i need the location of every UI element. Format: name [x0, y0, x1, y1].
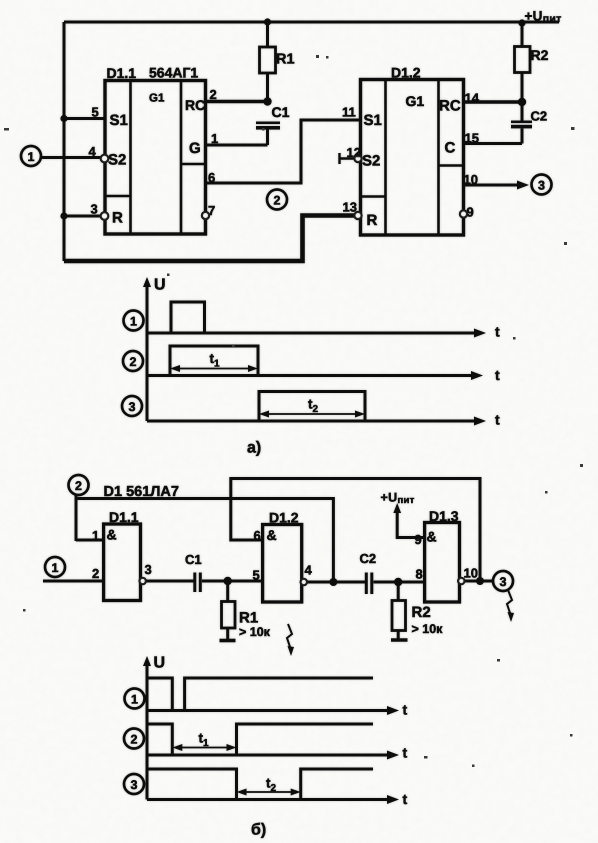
wire pin3 R [64, 215, 101, 218]
node +Uпит label [525, 9, 562, 26]
wire bottom run to R of D1.2 [64, 216, 354, 262]
R1 value label [276, 52, 295, 68]
wire pin3 to C1 [146, 580, 194, 583]
node label 3 row [122, 396, 142, 416]
node input terminal 1 [21, 146, 41, 166]
wire pin10 to terminal 3 [465, 580, 494, 583]
capacitor C1 [256, 122, 280, 146]
R1 value label lower [239, 610, 271, 640]
node junction feedback on output [476, 577, 484, 585]
axis t row1 diagram a [147, 332, 478, 335]
node junction S1 [60, 115, 67, 122]
node junction net2 on output [329, 578, 337, 586]
pin 9 circle on D1.2 [460, 210, 467, 217]
C1 label [272, 104, 290, 120]
dimension t1 diagram b [176, 747, 233, 749]
power +Uпит lower [381, 491, 415, 507]
dimension t2 diagram b [241, 791, 298, 793]
node junction R2 [394, 578, 402, 586]
node input terminal 1 lower [45, 557, 65, 577]
pin 3 inverting circle [140, 578, 146, 584]
wire pin10 output arrow [464, 184, 523, 187]
pin numbers gate D1.2 [253, 528, 313, 583]
wire top +U rail [64, 21, 559, 24]
resistor R2 [515, 23, 531, 102]
capacitor C2 [511, 102, 532, 144]
gate D1.3 labels [427, 508, 459, 545]
node label 2 row [123, 351, 143, 371]
axis t row2 diagram b [147, 754, 391, 757]
wire net2 feedback to gate2 output [76, 499, 333, 583]
waveform row3 diagram b [147, 769, 373, 800]
node output terminal 3 lower [493, 571, 513, 591]
pin numbers gate D1.1 [92, 528, 152, 581]
pin 12 S2 stub [340, 153, 354, 164]
IC label D1 561ЛА7 [104, 484, 179, 500]
wire +Uпит arrow to pin9 [397, 509, 424, 538]
node label 2 row b [124, 729, 144, 749]
waveform row2 pulse [170, 346, 258, 376]
node net 2 label [267, 190, 287, 210]
pin 13 inverting circle [354, 212, 361, 219]
node net 2 label lower [69, 475, 89, 495]
resistor R1 lower [222, 581, 236, 640]
pin 4 S2 inverting circle [101, 155, 109, 163]
node output terminal 3 [532, 175, 552, 195]
waveform row2 diagram b [147, 724, 373, 755]
wire pin5 S1 [64, 117, 105, 120]
pin 10 inverting circle [458, 578, 464, 584]
capacitor C2 lower [365, 573, 374, 595]
wire pin6 to pin11 [206, 120, 361, 183]
node R1/C1/RC junction [263, 97, 271, 105]
pin 12 inverting circle [354, 155, 361, 162]
pin 7 circle on D1.1 [202, 212, 209, 219]
node label 3 row b [124, 774, 144, 794]
C1 label lower [185, 552, 202, 567]
node junction R1 [224, 577, 232, 585]
node label 1 row b [125, 689, 145, 709]
R2 label [531, 47, 549, 63]
resistor R1 [260, 22, 276, 102]
C2 label lower [360, 551, 377, 566]
R2 value label lower [412, 604, 444, 636]
wire input to S2 [41, 156, 102, 159]
C2 label [531, 109, 548, 124]
ground R2 [391, 638, 408, 642]
pin 3 R inverting circle [101, 212, 109, 220]
caption b [251, 822, 266, 839]
dimension t2 diagram a [263, 413, 361, 415]
IC U2 D1.2 564АГ1 body [361, 80, 464, 236]
capacitor C1 lower [193, 573, 202, 593]
waveform row3 pulse [259, 392, 365, 422]
wire input to pin2 [43, 580, 104, 583]
IC U1 D1.1 564АГ1 body [105, 81, 206, 235]
waveform row1 diagram b [147, 678, 373, 711]
node junction R [60, 212, 67, 219]
wire pin4 to C2 [307, 581, 365, 584]
wire left rail [63, 22, 66, 261]
gate D1.2 labels [267, 510, 299, 544]
pin numbers gate D1.3 [415, 532, 478, 582]
wire C2 to pin8 [374, 581, 425, 584]
caption a [247, 440, 261, 457]
pin 4 inverting circle [301, 579, 307, 585]
stray mark lightning right [507, 590, 512, 616]
pin numbers D1.1 [89, 87, 219, 218]
waveform row1 pulse [171, 302, 205, 333]
wire net2 from label to pin1 [76, 494, 104, 541]
wire pin14 RC [464, 100, 523, 104]
gate U3 D1.1 NAND body [104, 524, 141, 601]
axis t row3 diagram a [147, 420, 478, 423]
node label 1 row [124, 311, 144, 331]
pin numbers D1.2 [342, 91, 480, 220]
axis U diagram b [146, 661, 149, 800]
wire pin15 C [464, 142, 523, 145]
node R2/C2/RC junction [518, 98, 526, 106]
IC D1.1 labels [107, 65, 206, 227]
dimension t1 diagram a [174, 368, 254, 370]
gate D1.1 labels [107, 509, 139, 543]
axis t row3 diagram b [147, 798, 391, 801]
node R1 top junction [264, 18, 271, 25]
axis t row1 diagram b [147, 709, 391, 712]
wire pin1 G [206, 144, 268, 147]
resistor R2 lower [392, 582, 406, 639]
gate U4 D1.2 NAND body [263, 525, 302, 603]
stray mark lightning left [287, 624, 292, 650]
IC D1.2 labels [362, 65, 461, 230]
gate U5 D1.3 NAND body [425, 523, 460, 603]
wire feedback gate3 output to pin6 [231, 479, 480, 582]
wire pin2 RC [206, 100, 268, 104]
node R2 top junction [518, 19, 525, 26]
ground R1 [220, 639, 236, 643]
wire C1 to pin5 [202, 580, 263, 583]
axis U diagram a [146, 283, 149, 421]
axis t row2 diagram a [147, 374, 475, 377]
